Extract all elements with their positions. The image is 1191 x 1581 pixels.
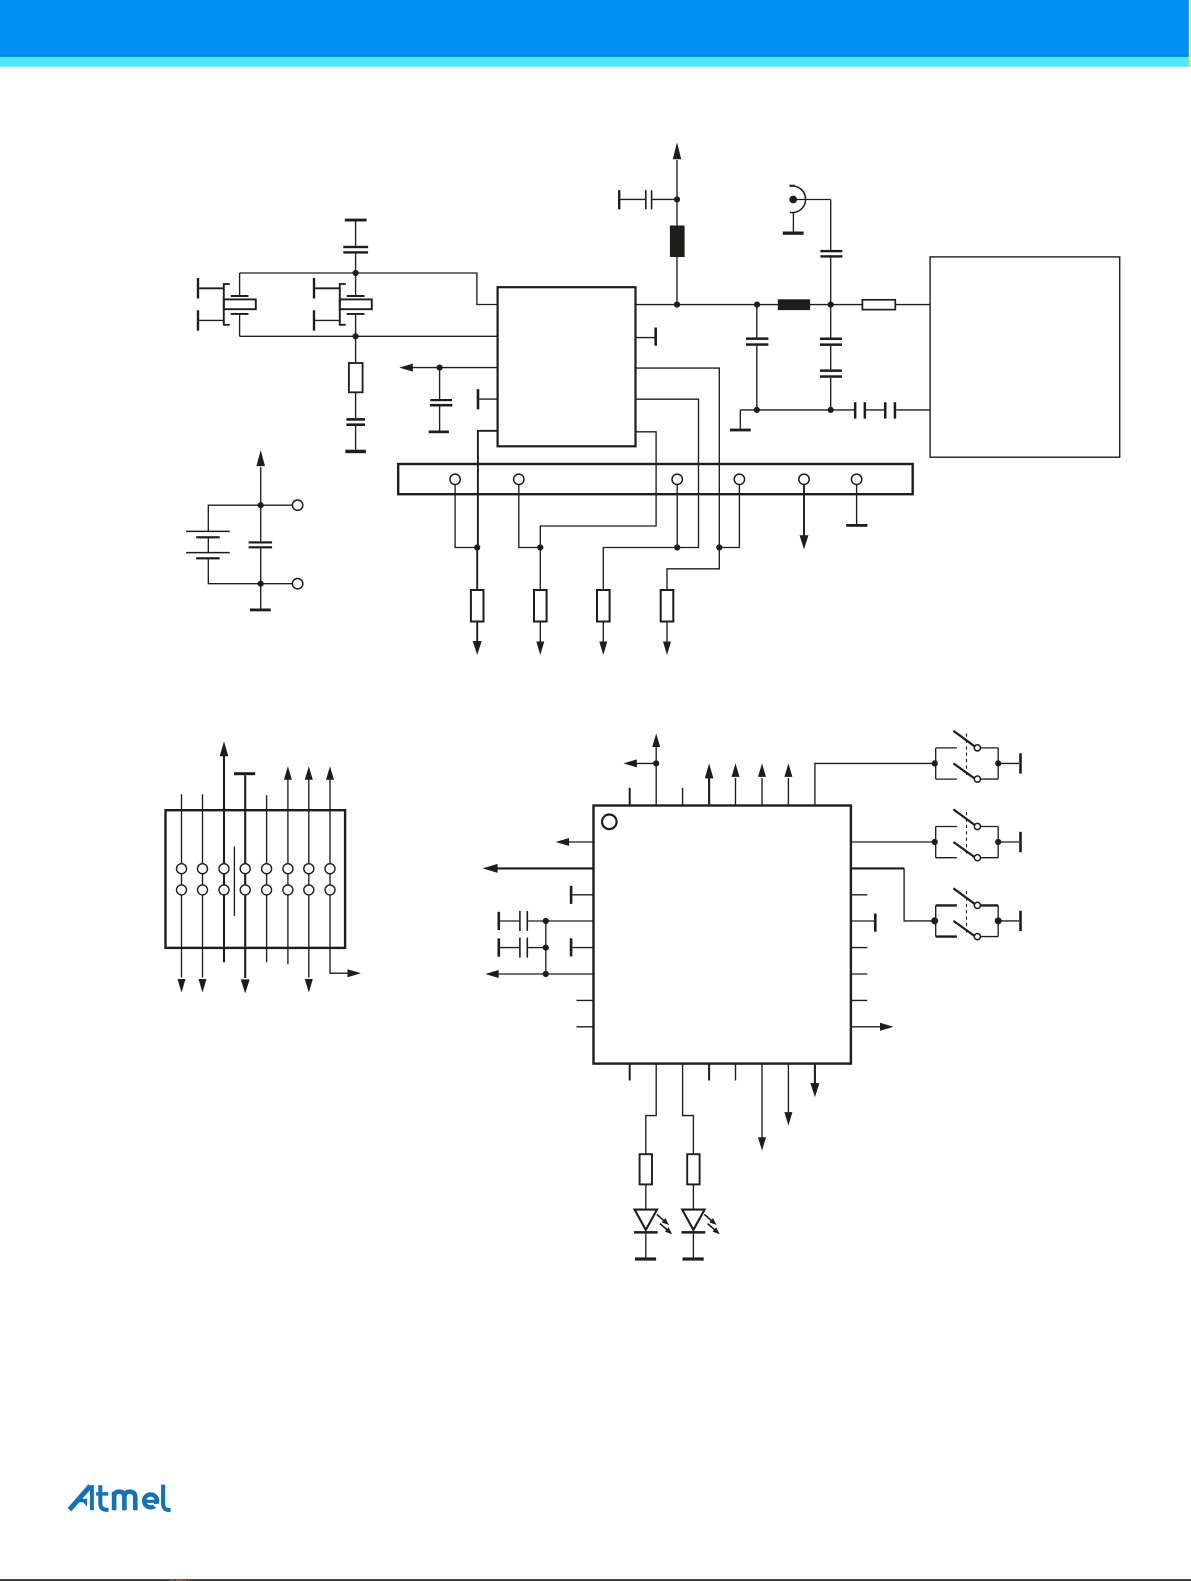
resistor R4 xyxy=(534,548,547,656)
RF connector J1 xyxy=(789,186,830,213)
wire U1 pin (thick) to R3 xyxy=(477,431,497,590)
footer rule xyxy=(0,1579,1191,1581)
node RF line / C10 xyxy=(828,302,834,308)
wire bus pad1 jog xyxy=(455,485,477,548)
ground terminal below C4 xyxy=(345,450,366,454)
wire U2 bottom pin 2 to R7 xyxy=(646,1064,656,1155)
J2 pin r2c5 xyxy=(262,885,272,895)
bus pad 4 xyxy=(734,474,744,484)
wire bus pad2 jog xyxy=(519,485,541,548)
wire U1 left pin to arrow (clock out) xyxy=(399,364,497,372)
wire U2 top pin 2 to arrows xyxy=(623,734,660,806)
wire J2 col6 xyxy=(284,766,292,964)
U2 right pin 3 stub xyxy=(851,894,867,896)
wire J2 col7 xyxy=(305,766,313,992)
node bottom wire / X2 xyxy=(353,333,359,339)
wire bus pad3 down xyxy=(676,485,678,548)
J2 pin r2c1 xyxy=(177,885,187,895)
U2 bottom pin 4 stub xyxy=(708,1064,710,1081)
capacitor C11 series xyxy=(854,402,884,418)
J2 pin r1c6 xyxy=(283,864,293,874)
arrow U2 bottom pin 8 (bold) xyxy=(810,1064,819,1098)
wire to terminal P2 xyxy=(261,583,293,585)
capacitor C5 xyxy=(430,368,453,431)
U2 bottom pin 1 stub xyxy=(629,1064,631,1081)
capacitor C15 with terminal bar xyxy=(498,938,546,958)
wire U1 pin to R5 xyxy=(603,399,698,590)
node top pin 2 xyxy=(653,760,659,766)
bus pad 5 xyxy=(799,474,809,484)
power arrow VCC above L1 xyxy=(673,142,681,199)
U2 left pin 5 stub with bar xyxy=(570,938,594,956)
node R4 top xyxy=(537,544,543,550)
wire to terminal P1 xyxy=(261,504,293,506)
U2 right pin 7 stub xyxy=(851,999,867,1001)
battery BT1 xyxy=(186,505,261,584)
arrow U2 bottom pin 6 xyxy=(758,1064,766,1151)
wire J2 col3 (VCC) xyxy=(220,741,229,962)
crystal resonator X1 xyxy=(197,273,256,336)
node battery positive xyxy=(258,502,264,508)
U1 left pin stub with bar xyxy=(477,389,498,409)
J2 pin r1c2 xyxy=(198,864,208,874)
header blue banner xyxy=(0,0,1191,57)
node R5 line / pad3 xyxy=(674,544,680,550)
U2 top pin 1 stub xyxy=(629,788,631,806)
crystal resonator X2 xyxy=(313,273,372,336)
J2 pin r1c8 xyxy=(325,864,335,874)
ground left end of return line xyxy=(730,410,751,432)
bus pad 3 xyxy=(672,474,682,484)
resistor R7 and LED D1 xyxy=(634,1154,674,1260)
U2 right pin 6 stub xyxy=(851,973,867,975)
arrow U2 left pin 6 xyxy=(485,970,593,978)
header cyan strip xyxy=(0,57,1191,67)
node RF line / L1 xyxy=(674,302,680,308)
terminal P2 xyxy=(292,579,302,589)
ground below C5 xyxy=(429,431,449,434)
U1 right pin stub with bar xyxy=(636,328,658,346)
wire J2 col4 (terminal bar) xyxy=(234,772,255,993)
Atmel logo xyxy=(70,1485,171,1511)
arrow U2 left pin 2 (bold) xyxy=(483,864,594,873)
ground below J1 xyxy=(783,212,804,234)
header yellow edge mark xyxy=(1189,0,1191,67)
ground below bus pad6 xyxy=(846,485,867,527)
J2 pin r2c4 xyxy=(240,885,250,895)
wire X1/X2 bottom to U1 pin xyxy=(240,335,498,337)
J2 pin r1c4 xyxy=(240,864,250,874)
arrow U2 top pin 6 xyxy=(758,763,766,805)
inductor L1 (ferrite bead) xyxy=(670,199,685,304)
J2 pin r1c3 xyxy=(219,864,229,874)
ground below battery xyxy=(250,584,271,612)
bus bar connector strip xyxy=(398,464,913,494)
U2 top pin 3 stub xyxy=(682,788,684,806)
U2 bottom pin 5 stub xyxy=(735,1064,737,1081)
bus pad 2 xyxy=(514,474,524,484)
J2 pin r2c8 xyxy=(325,885,335,895)
U2 right pin 4 stub with bar xyxy=(851,914,877,932)
J2 pin r2c6 xyxy=(283,885,293,895)
U2 left pin 7 stub xyxy=(577,999,594,1001)
wire U2 top pin 8 to switch S1 xyxy=(815,763,935,805)
arrow below bus pad5 xyxy=(800,485,809,550)
wire J2 col2 xyxy=(199,794,207,992)
node return line / C8 xyxy=(754,407,760,413)
switch S3 xyxy=(931,888,1022,939)
antenna module A1 xyxy=(930,257,1120,457)
RF transceiver IC U1 xyxy=(498,287,636,446)
wire U2 right pin 1 to switch S2 xyxy=(851,841,935,843)
arrow U2 left pin 1 xyxy=(556,838,594,846)
node decoupling rail 3 xyxy=(543,971,549,977)
arrow U2 right pin 8 xyxy=(851,1023,894,1031)
wire lower RF return line xyxy=(740,409,854,411)
wire J2 col8 xyxy=(326,766,361,977)
capacitor C13 xyxy=(249,505,273,584)
J2 pin r1c7 xyxy=(304,864,314,874)
capacitor C14 with terminal bar xyxy=(498,911,546,931)
wire U1 pin to R4 xyxy=(540,432,656,548)
resistor R8 and LED D2 xyxy=(682,1154,722,1260)
J2 pin r1c5 xyxy=(262,864,272,874)
power arrow U2 top pin 4 xyxy=(705,763,714,805)
wire U2 bottom pin 3 to R8 xyxy=(683,1064,694,1155)
J2 key mark xyxy=(233,847,235,917)
capacitor C7 xyxy=(820,200,842,305)
resistor R1 below X2 xyxy=(349,336,363,392)
node RF line / C8 xyxy=(754,302,760,308)
switch S1 xyxy=(932,731,1022,782)
node top wire / X2 xyxy=(353,270,359,276)
capacitor C3 xyxy=(343,222,368,274)
inductor L2 (ferrite bead) on RF line xyxy=(778,299,810,310)
terminal bar above C3 xyxy=(345,219,367,222)
U2 right pin 5 stub xyxy=(851,947,867,949)
node return line / C10 xyxy=(828,407,834,413)
J2 pin r2c7 xyxy=(304,885,314,895)
U2 left pin 8 stub xyxy=(577,1026,594,1028)
wire J2 col1 xyxy=(178,794,186,992)
capacitor C4 below R1 xyxy=(346,392,365,449)
node battery negative xyxy=(258,581,264,587)
wire U1 RF output line xyxy=(636,304,931,306)
switch S2 xyxy=(932,809,1022,860)
node VCC / C6 xyxy=(674,196,680,202)
arrow below R3 xyxy=(473,622,482,656)
wire U2 right pin 2 to switch S3 (bold) xyxy=(851,868,935,921)
header boundary line xyxy=(0,55,1191,57)
microcontroller U2 xyxy=(594,806,851,1064)
capacitor C12 series xyxy=(884,402,930,418)
resistor R2 on RF line xyxy=(862,300,895,310)
J2 pin r2c3 xyxy=(219,885,229,895)
U2 pin1 marker xyxy=(602,815,617,830)
wire decoupling rail xyxy=(545,921,547,974)
J2 pin r1c1 xyxy=(177,864,187,874)
wire X1/X2 top to U1 pin xyxy=(240,273,498,305)
node clock out / C5 xyxy=(437,365,443,371)
capacitor C8 branch xyxy=(746,305,769,410)
power arrow above battery node xyxy=(256,450,265,505)
resistor R3 xyxy=(471,590,484,622)
arrow U2 top pin 5 xyxy=(732,763,740,805)
wire U1 pin to R6 xyxy=(636,368,720,547)
resistor R5 xyxy=(597,590,610,655)
node decoupling rail 1 xyxy=(543,918,549,924)
bus pad 1 xyxy=(450,474,460,484)
resistor R6 xyxy=(661,548,720,656)
node decoupling rail 2 xyxy=(543,945,549,951)
wire U2 left pin 4 xyxy=(546,920,594,922)
arrow U2 bottom pin 7 xyxy=(784,1064,792,1126)
J2 pin r2c2 xyxy=(198,885,208,895)
node R6 junction xyxy=(716,544,722,550)
pin header J2 outline xyxy=(166,810,346,948)
capacitor C6 with terminal bar xyxy=(618,190,677,209)
bus pad 6 xyxy=(851,474,861,484)
footer tiny doc number remnant xyxy=(170,1579,189,1581)
U2 left pin 3 stub with bar xyxy=(570,886,594,904)
arrow U2 top pin 7 xyxy=(784,763,792,805)
terminal P1 xyxy=(292,500,302,510)
wire J2 col5 xyxy=(266,795,268,962)
wire bus pad4 jog xyxy=(719,485,739,548)
capacitor C9 C10 stack xyxy=(820,305,842,410)
node R3 top xyxy=(474,544,480,550)
